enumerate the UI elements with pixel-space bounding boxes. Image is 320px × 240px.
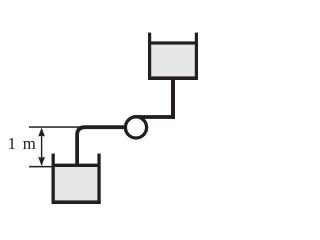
dimension bottom tick line (29, 166, 53, 168)
dimension arrowhead down (38, 157, 45, 166)
lower tank right wall (97, 154, 100, 204)
pipe from upper tank: horizontal segment tangent to pump top (134, 115, 176, 119)
pipe from upper tank: vertical segment (171, 79, 175, 119)
dimension arrowhead up (38, 128, 45, 137)
pump circle (125, 117, 146, 138)
upper tank left wall (148, 33, 151, 80)
upper tank liquid fill (151, 43, 195, 77)
pipe to lower tank: horizontal + elbow + vertical (77, 127, 124, 166)
upper tank bottom wall (148, 76, 198, 80)
upper tank right wall (195, 33, 198, 80)
svg-text:1 m: 1 m (8, 134, 36, 153)
dimension top tick line (29, 126, 85, 128)
lower tank liquid surface line (54, 164, 98, 167)
lower tank liquid fill (54, 166, 98, 201)
lower tank bottom wall (52, 200, 101, 204)
dimension arrow shaft (41, 129, 42, 165)
upper tank liquid surface line (151, 41, 196, 44)
lower tank left wall (52, 154, 55, 204)
